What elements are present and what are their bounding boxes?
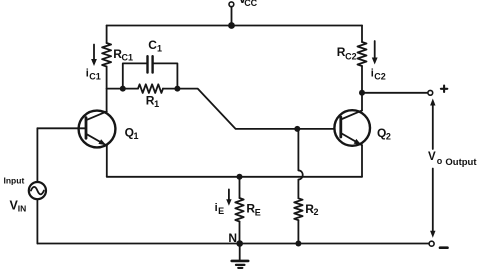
svg-text:1: 1: [157, 44, 162, 54]
svg-text:Input: Input: [4, 176, 25, 186]
svg-text:IN: IN: [18, 204, 27, 214]
svg-text:o: o: [437, 156, 443, 166]
svg-text:C: C: [148, 38, 157, 52]
svg-text:1: 1: [134, 131, 139, 141]
svg-text:E: E: [218, 206, 224, 216]
svg-text:C1: C1: [89, 71, 101, 81]
svg-text:C2: C2: [345, 51, 357, 61]
svg-text:N: N: [228, 231, 237, 245]
svg-text:E: E: [255, 208, 261, 218]
svg-text:2: 2: [386, 132, 391, 142]
svg-text:V: V: [428, 151, 436, 163]
svg-text:C2: C2: [374, 72, 386, 82]
svg-text:1: 1: [154, 99, 159, 109]
svg-text:Output: Output: [445, 157, 477, 168]
svg-text:C1: C1: [122, 52, 134, 62]
svg-text:CC: CC: [244, 0, 257, 8]
svg-text:2: 2: [314, 207, 319, 217]
